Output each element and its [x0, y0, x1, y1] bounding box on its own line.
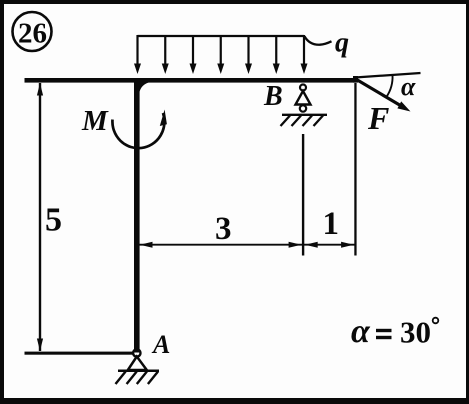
svg-text:q: q: [335, 28, 349, 59]
svg-text:30: 30: [400, 315, 431, 350]
svg-text:3: 3: [215, 211, 232, 247]
svg-text:α: α: [351, 313, 371, 350]
svg-text:M: M: [81, 105, 109, 137]
svg-text:α: α: [401, 72, 416, 101]
svg-text:F: F: [367, 100, 389, 136]
svg-text:B: B: [263, 81, 283, 112]
svg-text:5: 5: [45, 202, 62, 239]
svg-text:1: 1: [323, 206, 340, 242]
svg-text:A: A: [151, 330, 170, 359]
svg-text:26: 26: [18, 18, 47, 50]
